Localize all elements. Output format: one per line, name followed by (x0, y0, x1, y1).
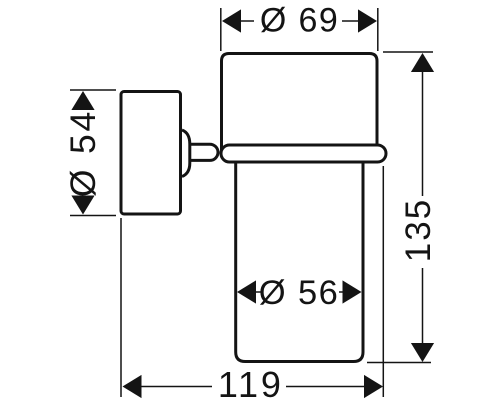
dim 119: left arrow (123, 375, 142, 398)
dim 135: bottom extension line (367, 362, 431, 364)
wall plate flange (182, 130, 190, 177)
svg-text:Ø 56: Ø 56 (259, 274, 339, 312)
dim Ø69: left arrow (222, 9, 241, 32)
dim Ø56: left arrow (237, 280, 256, 303)
dim Ø56: right arrow (343, 280, 362, 303)
dim Ø69: right extension line (377, 8, 379, 51)
dim Ø69: right arrow (358, 9, 377, 32)
dim 135: upper line segment (422, 70, 424, 196)
dim Ø56: right line segment (339, 291, 344, 293)
dim 119: right arrow (364, 375, 383, 398)
dim 119: right extension line (382, 166, 384, 397)
tumbler upper section (glass top) (222, 54, 378, 153)
dim Ø54: bottom extension line (70, 215, 116, 217)
svg-text:Ø 69: Ø 69 (260, 2, 339, 40)
wall plate (121, 92, 181, 215)
dim 119: right line segment (286, 386, 364, 388)
dim Ø69: right line segment (342, 20, 359, 22)
dim 119: left extension line (120, 218, 122, 397)
mounting arm (184, 144, 218, 160)
dim Ø54: bottom arrow (71, 196, 94, 215)
svg-text:Ø 54: Ø 54 (63, 109, 103, 197)
tumbler lower body (glass) (236, 155, 363, 362)
dim Ø56: left line segment (256, 291, 262, 293)
dim Ø54: top extension line (70, 89, 116, 91)
svg-text:135: 135 (399, 198, 438, 262)
dim 135: lower line segment (422, 268, 424, 345)
dim 135: top arrow (411, 53, 434, 72)
svg-text:119: 119 (218, 364, 284, 400)
dim 135: bottom arrow (411, 343, 434, 362)
dim 135: top extension line (383, 51, 433, 53)
holder ring (221, 145, 386, 162)
dim 119: left line segment (141, 386, 212, 388)
dim Ø69: left extension line (220, 8, 222, 51)
dim Ø69: left line segment (240, 20, 254, 22)
dim Ø54: top arrow (71, 91, 94, 110)
